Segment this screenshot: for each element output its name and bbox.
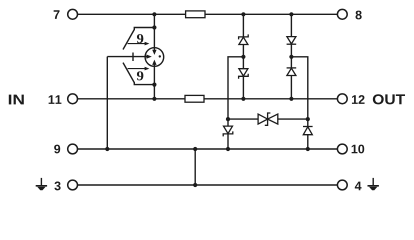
wire center connector rail 9-10 to rail 3-4 xyxy=(194,149,196,185)
wire TVS rail xyxy=(228,118,308,120)
node rail 9-10 / V6 xyxy=(226,147,230,151)
node top rail / left branch xyxy=(241,12,245,16)
terminal 4 xyxy=(337,180,347,190)
terminal 9 xyxy=(68,144,78,154)
thermal switch S2 actuation arrow xyxy=(128,68,146,70)
label theta S1 xyxy=(137,34,143,43)
bidirectional TVS diode V5 xyxy=(258,113,278,125)
gas discharge tube U1 left electrode arrow xyxy=(145,56,147,58)
zener diode V6 xyxy=(223,126,233,136)
thermal switch S1 contact bar xyxy=(132,53,134,62)
resistor R1 xyxy=(186,11,205,18)
wire left electrode drop to rail 9 xyxy=(106,57,108,149)
label OUT xyxy=(373,94,405,104)
label 8 xyxy=(356,11,362,20)
node rail 9-10 / center connector xyxy=(193,147,197,151)
label IN xyxy=(9,95,24,105)
label 3 xyxy=(54,181,60,190)
gas discharge tube U1 top electrode arrow xyxy=(153,48,155,51)
node rail 11-12 / left branch xyxy=(241,97,245,101)
label 9 xyxy=(54,145,60,154)
wire GDT left electrode horizontal xyxy=(107,56,150,58)
zener diode V2 xyxy=(239,69,249,79)
diode V3 xyxy=(287,37,297,45)
terminal 8 xyxy=(337,9,347,19)
terminal 11 xyxy=(68,94,78,104)
label 11 xyxy=(49,95,62,104)
wire V7 branch xyxy=(307,119,309,149)
label theta S2 xyxy=(137,71,143,80)
node left branch mid xyxy=(241,55,245,59)
gas discharge tube U1 circle xyxy=(145,48,164,67)
node right branch mid xyxy=(289,55,293,59)
wire right diode branch vertical xyxy=(290,14,292,99)
node GDT / S2 xyxy=(152,83,156,87)
node TVS rail left xyxy=(226,117,230,121)
wire V6 branch xyxy=(227,119,229,149)
wire rail 9-10 xyxy=(78,148,338,150)
wire right bracket mid node to TVS rail xyxy=(291,57,307,119)
wire GDT vertical line xyxy=(153,14,155,99)
diode V7 xyxy=(303,127,313,135)
node top rail / GDT xyxy=(152,12,156,16)
gas discharge tube U1 gas dot xyxy=(159,55,161,57)
label 7 xyxy=(54,10,60,19)
terminal 10 xyxy=(337,144,347,154)
node rail 9-10 / electrode drop xyxy=(105,147,109,151)
label 4 xyxy=(355,182,362,191)
label 12 xyxy=(352,95,365,104)
node TVS rail right xyxy=(306,117,310,121)
wire rail 3-4 xyxy=(78,184,338,186)
terminal 7 xyxy=(68,9,78,19)
ground symbol left xyxy=(36,178,47,190)
node rail 11-12 / GDT xyxy=(152,97,156,101)
wire top rail 7-8 right segment xyxy=(205,13,337,15)
thermal switch S1 stub xyxy=(134,28,154,31)
wire left bracket mid node to TVS rail xyxy=(228,57,243,119)
wire rail 11-12 right segment xyxy=(204,98,337,100)
node top rail / right branch xyxy=(289,12,293,16)
label 10 xyxy=(352,145,365,154)
node rail 3-4 / center connector xyxy=(193,183,197,187)
thermal switch S2 blade xyxy=(123,63,134,83)
node rail 11-12 / right branch xyxy=(289,97,293,101)
thermal switch S1 actuation arrow xyxy=(128,43,146,45)
thermal switch S2 stub xyxy=(134,82,154,85)
terminal 12 xyxy=(337,94,347,104)
node rail 9-10 / V7 xyxy=(306,147,310,151)
node GDT / S1 xyxy=(152,25,156,29)
terminal 3 xyxy=(68,180,78,190)
thermal switch S1 blade xyxy=(123,30,134,50)
resistor R2 xyxy=(185,95,204,102)
wire rail 11-12 left segment xyxy=(78,98,185,100)
zener diode V1 xyxy=(239,34,249,44)
wire left diode branch vertical xyxy=(242,14,244,99)
ground symbol right xyxy=(368,178,379,190)
diode V4 xyxy=(287,68,297,76)
gas discharge tube U1 bottom electrode arrow xyxy=(153,64,155,66)
wire top rail 7-8 left segment xyxy=(78,13,186,15)
